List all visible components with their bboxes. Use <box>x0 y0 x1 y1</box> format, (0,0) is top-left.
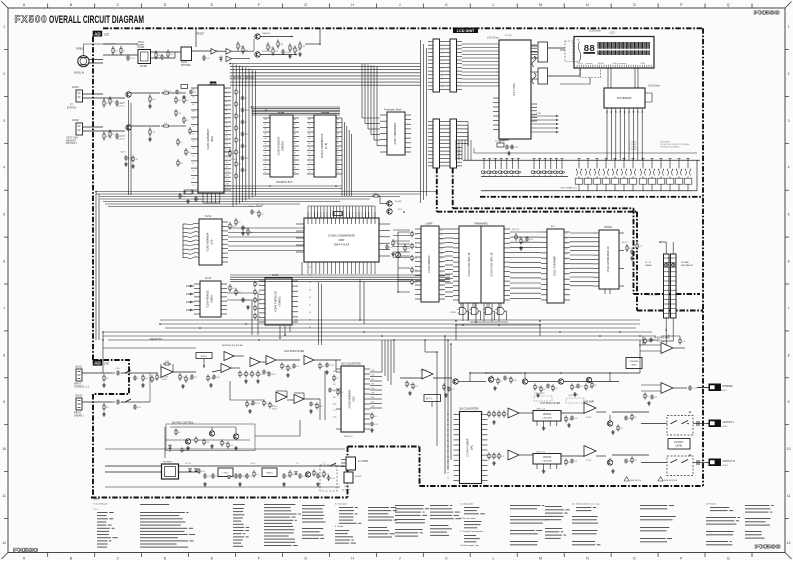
svg-text:560: 560 <box>374 416 377 418</box>
pins IC306 right <box>379 223 390 225</box>
svg-text:C: C <box>117 3 120 7</box>
resistor R209 <box>272 47 274 50</box>
microprocessor IC201 <box>198 85 224 193</box>
svg-text:N: N <box>586 3 589 7</box>
section boundary connector notch bottom <box>637 310 703 312</box>
svg-text:D5: D5 <box>226 145 228 147</box>
resistor R244 <box>258 210 260 212</box>
wire inverter chain <box>218 50 226 52</box>
svg-text:(L. 8): (L. 8) <box>324 143 328 149</box>
peripheral IC309 <box>265 278 292 325</box>
op-amp IC709 <box>584 403 596 414</box>
svg-text:(AJ): (AJ) <box>210 239 214 244</box>
svg-text:47/6.3: 47/6.3 <box>255 403 260 405</box>
gnd G23 <box>568 423 570 425</box>
svg-text:IC209 M5K005: IC209 M5K005 <box>206 290 210 308</box>
resistor R233 <box>183 116 185 118</box>
svg-text:D: D <box>164 3 167 7</box>
svg-text:11: 11 <box>787 494 791 498</box>
svg-text:* Circuit Board: * Circuit Board <box>93 503 108 506</box>
capacitor C713 <box>577 384 579 386</box>
svg-text:1: 1 <box>788 25 790 29</box>
svg-text:IC215: IC215 <box>205 278 212 280</box>
svg-text:PHONES: PHONES <box>723 385 734 388</box>
svg-text:AD: AD <box>94 361 101 366</box>
svg-text:H: H <box>351 3 354 7</box>
svg-text:IC316: IC316 <box>450 312 457 314</box>
notes column 9b <box>545 506 562 507</box>
svg-text:12: 12 <box>2 541 6 545</box>
svg-text:560: 560 <box>186 100 189 102</box>
resistor R243 <box>247 228 249 230</box>
wire IC312 to IC313 <box>445 228 453 230</box>
svg-text:D3: D3 <box>309 172 311 174</box>
svg-text:IC201 HD63B03Y: IC201 HD63B03Y <box>206 128 210 149</box>
svg-text:coupler: coupler <box>137 44 145 47</box>
capacitor C715 <box>651 395 653 397</box>
svg-text:D0: D0 <box>309 267 311 269</box>
svg-text:LOW PASS FILTER: LOW PASS FILTER <box>284 350 305 353</box>
connector JK503 output R <box>709 459 722 467</box>
resistor R132 <box>412 383 414 385</box>
svg-text:OUTPUT R: OUTPUT R <box>723 460 735 463</box>
svg-text:560: 560 <box>180 142 183 144</box>
svg-text:SIGNAL: SIGNAL <box>681 261 690 264</box>
transistor Q104 <box>185 439 190 444</box>
resistor R715 <box>540 386 542 388</box>
muting section box <box>166 424 255 451</box>
grid ticks and labels <box>47 4 49 9</box>
svg-text:D1: D1 <box>566 279 568 281</box>
resistors on IC312 left <box>411 231 413 233</box>
svg-text:560: 560 <box>260 374 263 376</box>
svg-text:D/A CONVERTER: D/A CONVERTER <box>459 408 479 411</box>
connector CN302 upper <box>450 39 457 92</box>
svg-text:3: 3 <box>3 119 5 123</box>
svg-text:13. Power: 13. Power <box>706 503 716 506</box>
wire firmware bottom drops <box>462 303 464 321</box>
ADC IC108 <box>341 366 364 432</box>
svg-text:(TEST SW): (TEST SW) <box>66 138 78 140</box>
extra audio cluster 3 <box>246 401 248 403</box>
svg-text:LCD: LCD <box>609 32 614 35</box>
svg-text:SEG40: SEG40 <box>598 63 604 65</box>
section boundary inner notch vertical <box>633 208 635 294</box>
transistor Q201 <box>126 92 131 97</box>
wire adc data out <box>370 371 382 373</box>
capacitor C707 <box>625 416 627 418</box>
gnd G19 <box>409 391 411 393</box>
svg-text:PROTECT: PROTECT <box>66 143 78 145</box>
svg-text:KEY: KEY <box>398 209 403 211</box>
capacitor C241 <box>242 225 244 227</box>
gnd G3 <box>149 104 151 106</box>
resistor R121 <box>281 363 283 365</box>
svg-text:DB6: DB6 <box>371 393 374 395</box>
svg-text:+5V A: +5V A <box>250 462 256 465</box>
svg-text:11. Semiconductor Cct. Cap.: 11. Semiconductor Cct. Cap. <box>572 503 600 506</box>
transistor Q105 <box>209 431 214 436</box>
capacitor C123 <box>310 402 312 404</box>
svg-text:LCD Driver: LCD Driver <box>648 85 660 88</box>
gnd G10 <box>520 246 522 248</box>
svg-text:330: 330 <box>106 407 109 409</box>
svg-text:DB4: DB4 <box>371 375 374 377</box>
svg-text:6: 6 <box>788 260 790 264</box>
svg-text:Q A: Q A <box>344 485 348 488</box>
section boundary CN drop left <box>436 168 438 212</box>
wire DRAM risers <box>604 289 606 294</box>
wire q702 out <box>564 381 600 383</box>
resistor R107 <box>179 373 181 375</box>
svg-text:OUTPUT: OUTPUT <box>674 442 684 444</box>
resistor R225 <box>109 130 111 133</box>
transistor Q202 <box>126 125 131 130</box>
gnd G20 <box>445 393 447 395</box>
pins connector upper <box>428 41 433 43</box>
latch block upper <box>538 42 548 62</box>
svg-text:560: 560 <box>256 474 259 476</box>
wire to preamp <box>134 372 158 374</box>
svg-text:SEG1: SEG1 <box>578 63 583 65</box>
notes column 3 refs <box>233 504 245 505</box>
gnd G1 <box>289 54 291 56</box>
svg-text:IC315 TC4094BP: IC315 TC4094BP <box>553 256 557 277</box>
op-amp IC104 second row <box>276 392 287 402</box>
gnd G17 <box>326 370 328 372</box>
notes column 5b <box>302 505 325 506</box>
svg-text:LEVEL: LEVEL <box>675 446 683 448</box>
svg-text:IC1 T7934: IC1 T7934 <box>512 83 516 96</box>
svg-text:330: 330 <box>115 51 118 53</box>
resistor R302 <box>404 244 406 246</box>
label OUTPUT LEVEL <box>668 439 690 450</box>
svg-text:M: M <box>539 556 542 560</box>
svg-text:4. COM4: 4. COM4 <box>629 149 636 151</box>
capacitor C242 <box>242 297 244 299</box>
gnd G16 <box>287 373 289 375</box>
capacitor C710 coupling <box>696 460 698 465</box>
svg-text:R4 1.5K: R4 1.5K <box>256 205 264 207</box>
crystal X401 cluster <box>497 143 504 147</box>
expander IC215 <box>200 281 221 317</box>
svg-text:Transistor Drive: Transistor Drive <box>384 109 402 112</box>
notes column 13 <box>745 505 770 506</box>
svg-text:560: 560 <box>647 341 650 343</box>
svg-text:IC314 TC9176PL-16: IC314 TC9176PL-16 <box>490 252 494 276</box>
DAC IC704 <box>460 412 482 484</box>
svg-text:RES: RES <box>226 175 229 177</box>
svg-text:10/16: 10/16 <box>331 478 335 480</box>
resistor R719 <box>591 382 593 384</box>
svg-text:D5: D5 <box>441 290 443 292</box>
svg-text:OVERALL CIRCUIT DIAGRAM: OVERALL CIRCUIT DIAGRAM <box>49 14 144 26</box>
brace segment glyphs <box>532 56 536 67</box>
svg-text:J: J <box>399 556 401 560</box>
svg-text:0.1: 0.1 <box>179 92 181 94</box>
gnd G14 <box>142 383 144 385</box>
wire IC215 right <box>227 292 258 294</box>
svg-text:COM1: COM1 <box>612 63 617 65</box>
svg-text:(MIDI): (MIDI) <box>210 295 214 302</box>
wire controller right lower pins <box>531 103 537 105</box>
svg-text:D6: D6 <box>226 149 228 151</box>
transistor Q702 <box>558 379 563 384</box>
svg-text:PC201: PC201 <box>138 47 146 49</box>
inverter IC210c <box>226 56 232 62</box>
key switch SW423 <box>596 158 599 160</box>
svg-text:MEMORY: MEMORY <box>66 140 77 142</box>
connector JK201 <box>76 90 83 102</box>
notes column 11 <box>640 505 668 506</box>
svg-text:100: 100 <box>188 152 191 154</box>
wire vertical pair left <box>128 100 130 195</box>
wire line amp out <box>596 412 649 414</box>
resistor R711 <box>491 376 493 378</box>
LCD brace glyph <box>578 42 581 62</box>
wire IC314 to IC315 <box>510 231 541 233</box>
key switch SW425 <box>614 158 617 160</box>
gnd G24 <box>612 430 614 432</box>
key switch SW430 <box>660 158 663 160</box>
key switch SW431 <box>669 158 672 160</box>
svg-text:DB2: DB2 <box>371 370 374 372</box>
svg-text:0.1: 0.1 <box>245 146 247 148</box>
svg-text:D1: D1 <box>226 127 228 129</box>
svg-text:0.1: 0.1 <box>245 98 247 100</box>
resistor R122 <box>287 365 289 367</box>
svg-text:13: 13 <box>442 86 444 88</box>
svg-text:D3: D3 <box>441 281 443 283</box>
wire phones level <box>600 381 619 383</box>
resistor R124 <box>263 400 265 402</box>
bus IC201 to top right <box>230 63 421 65</box>
resistor R718 <box>585 384 587 386</box>
wire gate outputs bus <box>470 321 508 323</box>
key switch SW405 <box>505 158 508 160</box>
svg-text:LPF102: LPF102 <box>543 456 552 459</box>
svg-text:ADDRESS BUS: ADDRESS BUS <box>276 181 293 184</box>
svg-text:JK101: JK101 <box>75 365 83 369</box>
svg-text:D3: D3 <box>566 289 568 291</box>
section boundary outer notch vertical <box>636 212 638 311</box>
svg-text:2SC1740: 2SC1740 <box>262 51 272 53</box>
svg-text:D2: D2 <box>309 282 311 284</box>
capacitor C708 <box>625 459 627 461</box>
gnd G21 <box>187 446 189 448</box>
wire CN801 lower leads <box>665 318 667 345</box>
svg-text:10/16: 10/16 <box>271 374 275 376</box>
svg-text:CL, IF: CL, IF <box>645 262 652 264</box>
resistor R713 <box>510 377 512 379</box>
gnd G8 <box>247 305 249 307</box>
svg-text:D2: D2 <box>309 167 311 169</box>
svg-text:D6: D6 <box>309 312 311 314</box>
svg-text:JK502: JK502 <box>722 426 729 428</box>
capacitor C802 filter <box>212 473 214 475</box>
capacitor C102 coupling <box>117 399 119 401</box>
junction dots bus <box>95 191 97 193</box>
op-amp IC706 <box>508 450 519 460</box>
resistor R204 <box>167 50 169 53</box>
svg-text:PC300: PC300 <box>140 66 148 68</box>
wire gates feed <box>460 303 462 307</box>
key switch SW410 <box>544 158 547 160</box>
svg-text:SEE NOTE A: SEE NOTE A <box>664 479 678 482</box>
svg-text:D5: D5 <box>193 185 195 187</box>
transistor Q302 <box>387 209 392 214</box>
bus IC306 bottom risers <box>307 262 309 274</box>
svg-text:DB4: DB4 <box>371 388 374 390</box>
svg-text:JK202: JK202 <box>72 119 79 122</box>
svg-text:R4 1.5K: R4 1.5K <box>512 229 520 231</box>
svg-text:100: 100 <box>322 366 325 368</box>
crystal X301 <box>334 212 342 216</box>
connector JK105 <box>344 472 353 483</box>
section boundary DA left vertical <box>419 447 421 487</box>
svg-text:47/6.3: 47/6.3 <box>130 58 135 60</box>
svg-text:OUTPUT L: OUTPUT L <box>723 421 735 424</box>
section boundary right vertical <box>702 28 704 486</box>
gnd G12 <box>103 383 105 385</box>
wire adc bus riser right <box>393 340 395 373</box>
capacitor C131 <box>448 387 450 389</box>
capacitor C706 <box>571 459 573 461</box>
capacitor C141 <box>181 448 183 450</box>
resistor R311 <box>515 233 517 235</box>
svg-text:330: 330 <box>266 403 269 405</box>
svg-text:K3: K3 <box>456 152 458 154</box>
svg-text:D5 +5V: D5 +5V <box>185 463 192 465</box>
svg-text:ENTRANCE: ENTRANCE <box>681 264 694 267</box>
key switch SW421 <box>578 158 581 160</box>
op-amp IC106 second row <box>294 395 304 404</box>
resistor R203 <box>155 51 157 54</box>
svg-text:D4: D4 <box>566 294 568 296</box>
svg-text:8: 8 <box>788 353 790 357</box>
svg-text:D2: D2 <box>294 167 296 169</box>
wire IC306 to LAMP horizontals <box>393 229 410 231</box>
section boundary inner horizontal <box>453 207 634 209</box>
op-amp IC711a <box>661 343 673 354</box>
wire lpf to line amp <box>561 412 584 414</box>
svg-text:D0: D0 <box>441 267 443 269</box>
transistor Q700 <box>488 377 493 382</box>
inverter IC210a <box>211 49 217 55</box>
op-amp IC102b <box>221 364 231 373</box>
switching contacts input <box>125 370 131 373</box>
capacitor C716 coupling <box>689 385 691 387</box>
connector CK805 <box>346 457 356 470</box>
svg-text:L: L <box>493 556 495 560</box>
wire power to boundary <box>337 465 344 467</box>
svg-text:Q: Q <box>727 556 730 560</box>
wire reset line <box>192 50 212 52</box>
svg-text:R2 100: R2 100 <box>505 35 512 37</box>
wire data bus lines <box>224 185 342 187</box>
svg-text:1/2: 1/2 <box>104 361 109 365</box>
svg-text:AD: AD <box>94 32 101 37</box>
wire bus down to dac <box>639 340 641 373</box>
resistor R702 <box>565 459 567 461</box>
section label AD 1/2 top <box>93 31 103 37</box>
svg-text:0.01: 0.01 <box>296 366 299 368</box>
svg-text:1/2: 1/2 <box>104 32 109 36</box>
capacitor C311 <box>526 236 528 238</box>
svg-text:2: 2 <box>3 72 5 76</box>
svg-text:BUFFER 4(5) B/S A/L: BUFFER 4(5) B/S A/L <box>222 344 244 347</box>
gnd G5 <box>221 157 223 159</box>
svg-text:C706 45/78: C706 45/78 <box>568 395 579 397</box>
resistor R105 <box>156 373 158 375</box>
gnd G13 <box>103 412 105 414</box>
svg-text:LAMP: LAMP <box>426 223 433 226</box>
svg-text:DRAM: DRAM <box>604 226 611 229</box>
svg-text:STEREO ( L ): STEREO ( L ) <box>74 385 89 388</box>
svg-text:D4: D4 <box>309 297 311 299</box>
svg-text:IC710: IC710 <box>586 460 592 462</box>
wire latch to display <box>548 47 566 49</box>
and gate IC316b <box>471 308 478 315</box>
connector JK502 output L <box>709 420 722 428</box>
wire left column vertical <box>102 332 104 373</box>
wire bus risers <box>95 192 97 341</box>
svg-text:Photo: Photo <box>138 41 145 44</box>
svg-text:9: 9 <box>3 400 5 404</box>
svg-text:100: 100 <box>238 222 241 224</box>
relay box output R dashed <box>667 456 693 476</box>
power row extra resistor R804 <box>313 470 315 472</box>
svg-text:to CK805: to CK805 <box>358 460 369 463</box>
wire phones amp 2 <box>641 384 661 386</box>
bus IC306 top risers <box>307 206 309 218</box>
wire buffer chain <box>196 371 221 373</box>
resistor R141 <box>175 429 177 431</box>
resistor R221 <box>103 99 105 102</box>
svg-text:1. D:: 1. D: <box>93 509 98 511</box>
svg-text:COM: COM <box>536 113 541 115</box>
svg-text:6. Resistor Note: 6. Resistor Note <box>460 517 476 520</box>
resistor R232 <box>183 96 185 98</box>
wire sh feedback <box>276 390 287 392</box>
gnd G27 <box>574 392 576 394</box>
wire lamp bus left <box>398 231 410 233</box>
LCD driver IC402 <box>604 88 645 108</box>
pin sockets CN801 <box>665 263 668 266</box>
svg-text:LM-102B: LM-102B <box>543 418 552 420</box>
svg-text:A5 1.2: A5 1.2 <box>622 241 629 244</box>
svg-text:10. Electrolytic Cap.: 10. Electrolytic Cap. <box>460 544 480 547</box>
wire keyboard to lamp riser <box>403 212 405 226</box>
power row extra capacitor C808 <box>235 473 237 475</box>
capacitor C801 filter <box>204 473 206 475</box>
wire dac input bus <box>445 410 453 412</box>
transistor Q204 <box>255 52 260 57</box>
wire coupler to IC202 <box>151 51 182 53</box>
potentiometer VR101 <box>203 359 205 369</box>
relay box output L dashed <box>667 416 693 436</box>
pins connector lower <box>428 121 433 123</box>
svg-text:D3: D3 <box>294 172 296 174</box>
svg-text:FX500: FX500 <box>755 545 781 551</box>
wire input rear <box>83 401 113 403</box>
resistor R144 <box>221 440 223 442</box>
notes column 2 desc <box>140 504 169 505</box>
op-amp IC110 vca <box>422 369 433 379</box>
resistor R712 <box>497 378 499 380</box>
svg-text:D2: D2 <box>265 167 267 169</box>
wire CN801 top leads <box>665 242 667 254</box>
